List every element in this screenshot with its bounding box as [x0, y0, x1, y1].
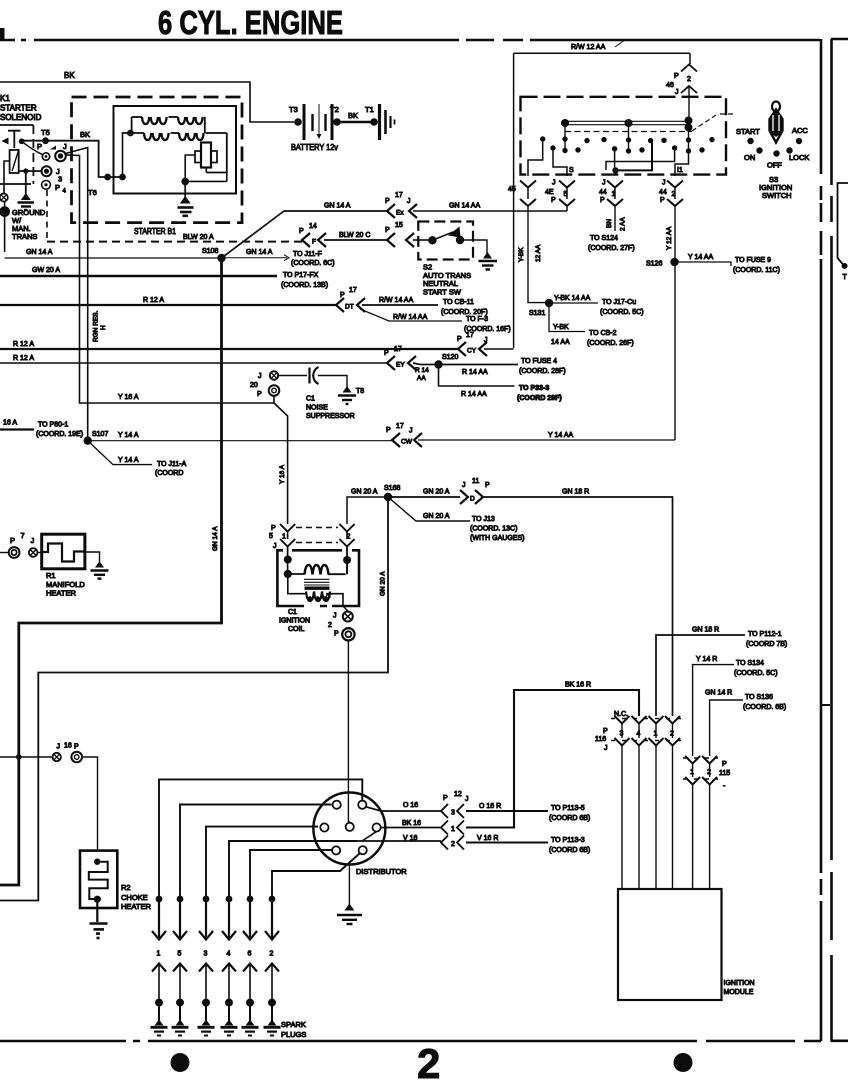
connector pin 3	[441, 804, 448, 818]
svg-text:6: 6	[248, 951, 252, 958]
svg-text:Y 16 A: Y 16 A	[279, 464, 286, 484]
connector pin 1	[441, 821, 448, 835]
svg-text:(COORD: (COORD	[155, 470, 183, 477]
svg-text:11: 11	[472, 478, 479, 485]
svg-text:TO P113-5: TO P113-5	[551, 805, 585, 812]
svg-text:TO J11-F: TO J11-F	[293, 251, 322, 258]
connector P115 pin 1	[685, 756, 700, 764]
svg-text:TO FUSE 9: TO FUSE 9	[735, 257, 771, 264]
svg-text:(COORD. 27F): (COORD. 27F)	[588, 245, 635, 252]
svg-text:20: 20	[250, 382, 258, 389]
ground earth (solenoid)	[25, 171, 27, 195]
svg-text:AA: AA	[417, 375, 426, 382]
ground earth (R2)	[90, 924, 108, 939]
svg-text:R1: R1	[46, 571, 56, 580]
wire 16 A to P80-1	[0, 428, 34, 430]
svg-text:DISTRIBUTOR: DISTRIBUTOR	[356, 867, 407, 876]
wire R 14 AA to fuse 4	[413, 363, 518, 365]
wire GN 14 A to ignition switch	[284, 210, 387, 212]
svg-text:J: J	[63, 142, 67, 151]
node S107	[84, 437, 92, 445]
svg-text:J: J	[57, 744, 61, 751]
switch S3 ignition switch dashed box	[521, 97, 727, 175]
starter B1 inner case	[114, 106, 237, 194]
svg-text:2: 2	[687, 76, 691, 83]
svg-text:Y-BK: Y-BK	[553, 324, 569, 331]
distributor output V 16	[357, 840, 441, 842]
svg-text:O 16: O 16	[403, 802, 418, 809]
svg-text:S107: S107	[92, 431, 108, 438]
spark plug columns	[156, 896, 276, 903]
svg-text:J: J	[409, 428, 413, 435]
svg-text:BK 16: BK 16	[402, 820, 421, 827]
node S108	[217, 254, 225, 262]
node starter coil feed	[119, 174, 126, 181]
svg-text:R 14 AA: R 14 AA	[461, 391, 487, 398]
connector P116 pin 2	[665, 716, 680, 724]
svg-text:(COORD. 11C): (COORD. 11C)	[733, 267, 780, 274]
svg-text:P: P	[457, 336, 462, 343]
svg-text:2: 2	[672, 191, 676, 198]
wire R/W 14 AA to CB-11	[362, 304, 438, 306]
svg-text:5: 5	[178, 951, 182, 958]
svg-text:R/W 12 AA: R/W 12 AA	[571, 44, 606, 51]
svg-text:P: P	[603, 728, 608, 735]
svg-text:NOISE: NOISE	[306, 405, 328, 412]
svg-text:T5: T5	[41, 128, 50, 137]
svg-text:BK: BK	[80, 130, 90, 139]
svg-text:I1: I1	[677, 167, 683, 174]
svg-text:BK 16 R: BK 16 R	[565, 682, 591, 689]
wire BK solenoid to starter	[22, 141, 123, 177]
svg-text:(COORD. 5C): (COORD. 5C)	[600, 309, 644, 316]
svg-text:CW: CW	[401, 439, 413, 446]
node S131 wiring	[528, 206, 545, 303]
connector P115 pin 2	[702, 756, 717, 764]
solenoid switch blade	[22, 141, 43, 155]
spark plug wire 4	[229, 841, 357, 899]
wire R 12 A (to EY)	[0, 362, 387, 364]
svg-text:J: J	[273, 543, 277, 550]
page right border (adjacent page)	[830, 39, 833, 1041]
svg-text:P: P	[600, 197, 605, 204]
node S2 contact	[428, 236, 436, 244]
spark plug 1	[158, 1003, 160, 1022]
wire Y 14 AA return bus	[418, 439, 675, 441]
starter field coil row 1	[132, 116, 142, 118]
svg-text:(COORD. 19E): (COORD. 19E)	[36, 431, 83, 438]
resistor R2 choke heater	[80, 851, 117, 908]
wire solenoid coil left to ground node	[4, 161, 10, 193]
svg-text:2: 2	[417, 1040, 440, 1087]
wire Y 14 A riser	[66, 148, 88, 441]
svg-text:H: H	[100, 325, 107, 330]
svg-text:GN 18 R: GN 18 R	[692, 627, 719, 634]
wire GN 20 A to J13	[388, 497, 470, 521]
svg-text:EY: EY	[396, 362, 405, 369]
svg-text:116: 116	[595, 736, 606, 743]
wire GN 20 A coil feed	[347, 497, 388, 524]
svg-text:IGNITION: IGNITION	[724, 980, 755, 987]
ground earth (R1)	[95, 561, 104, 568]
wire Y 14 A to J11-A	[88, 441, 152, 465]
distributor output BK 16	[381, 827, 441, 829]
connector spark plug lead 2	[271, 899, 273, 938]
spark plug 2	[271, 1003, 273, 1022]
svg-text:115: 115	[719, 770, 730, 777]
svg-text:V 16: V 16	[403, 835, 418, 842]
svg-text:17: 17	[349, 287, 357, 294]
switch S2 auto trans neutral start sw (dashed box)	[418, 222, 473, 260]
svg-text:P: P	[385, 227, 390, 234]
svg-text:P: P	[384, 350, 389, 357]
svg-text:17: 17	[466, 332, 474, 339]
svg-text:S108: S108	[202, 248, 218, 255]
connector P116 pin 1	[649, 716, 664, 724]
bottom staple dot left	[171, 1053, 190, 1072]
svg-text:TRANS: TRANS	[12, 232, 37, 241]
svg-text:RGN RES.: RGN RES.	[93, 310, 100, 342]
svg-text:4: 4	[63, 189, 67, 195]
svg-text:TO CB-2: TO CB-2	[589, 330, 617, 337]
distributor output O 16	[366, 807, 441, 811]
connector spark plug lead 1	[158, 899, 160, 938]
spark plug wire 2	[272, 854, 360, 900]
node contact	[19, 138, 25, 144]
wire GN 20 A to D	[388, 496, 460, 498]
coil C1 ignition coil case	[277, 550, 359, 606]
svg-text:1: 1	[157, 951, 161, 958]
svg-text:P: P	[674, 73, 679, 80]
svg-text:DT: DT	[345, 304, 354, 311]
wire Y-BK 14 AA to CB-2	[549, 303, 585, 332]
wire S2 to ground	[460, 240, 487, 254]
svg-text:TO S136: TO S136	[745, 694, 773, 701]
svg-text:(COORD. 5C): (COORD. 5C)	[734, 670, 778, 677]
spark plug wire 6	[250, 850, 332, 899]
connector ring ground stud	[0, 194, 8, 202]
wire GN 14 A main riser	[0, 258, 222, 885]
svg-text:(COORD 29F): (COORD 29F)	[517, 395, 562, 402]
svg-text:P: P	[386, 427, 391, 434]
ignition module	[618, 889, 722, 1000]
svg-text:R/W 14 AA: R/W 14 AA	[379, 297, 414, 304]
svg-text:12: 12	[454, 791, 462, 798]
svg-text:GN 14 A: GN 14 A	[26, 249, 53, 256]
wire GN 14 AA	[413, 210, 567, 212]
svg-text:(COORD. 6C): (COORD. 6C)	[291, 260, 335, 267]
svg-text:1: 1	[451, 826, 455, 833]
wire R/W 14 AA to F-3	[360, 309, 462, 321]
svg-text:4E: 4E	[545, 189, 554, 196]
svg-text:P: P	[271, 525, 276, 532]
wire GN 20 A return	[0, 497, 388, 901]
svg-text:HEATER: HEATER	[121, 902, 151, 911]
node S120	[434, 360, 442, 368]
svg-text:J: J	[465, 796, 469, 803]
svg-text:17: 17	[396, 423, 404, 430]
S3 rotor dashed track	[565, 131, 692, 133]
svg-text:SOLENOID: SOLENOID	[0, 113, 42, 122]
connector J pin 3	[42, 166, 52, 176]
node S168	[384, 493, 392, 501]
svg-text:1: 1	[282, 534, 286, 541]
svg-text:IGNITION: IGNITION	[279, 618, 310, 625]
svg-text:K1: K1	[0, 94, 10, 103]
svg-text:16: 16	[64, 743, 72, 750]
wire to R2 choke heater	[82, 757, 97, 850]
spark plug wire 3	[206, 827, 318, 899]
wire O 16 R to P113-5	[466, 810, 548, 812]
svg-text:GN 20 A: GN 20 A	[423, 513, 450, 520]
svg-text:GN 14 R: GN 14 R	[705, 690, 732, 697]
svg-text:MODULE: MODULE	[724, 989, 754, 996]
S3 key positions	[747, 138, 802, 157]
svg-text:TO S134: TO S134	[736, 660, 764, 667]
svg-text:TO J13: TO J13	[472, 516, 495, 523]
connector pin 2	[441, 836, 448, 850]
wire GN 18 R	[481, 497, 673, 716]
svg-text:O 16 R: O 16 R	[479, 803, 501, 810]
svg-text:44: 44	[599, 189, 607, 196]
svg-text:Y 16 A: Y 16 A	[118, 394, 139, 401]
svg-text:J: J	[675, 89, 679, 96]
node J16P junction	[16, 754, 22, 760]
svg-text:7: 7	[21, 531, 25, 540]
svg-text:(WITH GAUGES): (WITH GAUGES)	[470, 535, 524, 542]
svg-text:TO S124: TO S124	[590, 235, 618, 242]
page bottom border	[0, 1040, 821, 1043]
solenoid contact bar	[8, 131, 21, 148]
svg-text:P: P	[257, 391, 262, 398]
svg-text:(COORD 6B): (COORD 6B)	[549, 815, 590, 822]
svg-text:J: J	[333, 613, 337, 620]
svg-text:OFF: OFF	[767, 161, 782, 170]
svg-text:BK: BK	[64, 71, 75, 80]
svg-text:S120: S120	[442, 354, 458, 361]
svg-text:START: START	[736, 127, 760, 136]
svg-text:GN 14 A: GN 14 A	[246, 249, 273, 256]
svg-text:T: T	[843, 274, 848, 281]
svg-text:2: 2	[328, 622, 332, 629]
wire BK battery feed (top)	[0, 82, 294, 122]
svg-text:TO P112-1: TO P112-1	[748, 631, 782, 638]
spark plug 3	[205, 1003, 207, 1022]
node S2 output	[456, 236, 464, 244]
coil windings	[288, 532, 347, 575]
svg-text:J: J	[31, 536, 35, 545]
svg-text:Y 14 AA: Y 14 AA	[548, 432, 574, 439]
svg-text:R 12 A: R 12 A	[143, 297, 164, 304]
svg-text:P: P	[37, 142, 42, 151]
bottom staple dot right	[674, 1053, 693, 1072]
svg-text:Y 14 AA: Y 14 AA	[688, 254, 714, 261]
wire GW 20 A	[0, 275, 277, 278]
svg-text:14: 14	[309, 223, 317, 230]
svg-text:S: S	[569, 167, 574, 174]
svg-text:P: P	[10, 536, 15, 545]
svg-text:ACC: ACC	[792, 126, 808, 135]
svg-text:Y 12 AA: Y 12 AA	[666, 226, 673, 250]
svg-text:BK: BK	[348, 111, 358, 120]
svg-text:GN 20 A: GN 20 A	[380, 571, 387, 596]
svg-text:START SW: START SW	[423, 288, 462, 297]
svg-text:TO FUSE 4: TO FUSE 4	[521, 358, 557, 365]
S3 contact bus	[565, 121, 690, 124]
svg-text:(COORD. 26F): (COORD. 26F)	[587, 340, 634, 347]
S3 contact stacks	[565, 123, 689, 152]
S2 switch blade	[432, 232, 453, 240]
svg-text:P: P	[55, 183, 60, 192]
svg-text:S131: S131	[529, 310, 545, 317]
svg-text:P: P	[443, 795, 448, 802]
svg-text:Y 14 R: Y 14 R	[696, 656, 717, 663]
svg-text:T3: T3	[289, 105, 298, 114]
wire Y 14 R to S134	[693, 665, 734, 756]
svg-text:45: 45	[508, 186, 516, 193]
svg-text:P: P	[660, 197, 665, 204]
ground chassis at T1	[380, 104, 395, 140]
svg-text:Y 14 A: Y 14 A	[118, 432, 139, 439]
node T2	[333, 118, 341, 126]
svg-text:TO P80-1: TO P80-1	[38, 422, 68, 429]
svg-text:HEATER: HEATER	[46, 589, 76, 598]
svg-text:Ex: Ex	[396, 210, 404, 217]
wire BLW 20 A (dashed)	[47, 241, 302, 243]
connector stems P116/P115	[622, 724, 673, 739]
page border corner mark top-left	[0, 28, 5, 41]
svg-text:TO CB-11: TO CB-11	[443, 299, 474, 306]
connector spark plug lead 5	[179, 899, 181, 938]
wire Y 12 AA	[674, 206, 676, 440]
svg-text:(COORD. 13B): (COORD. 13B)	[281, 282, 328, 289]
svg-text:J: J	[462, 482, 466, 489]
svg-text:GN 14 A: GN 14 A	[324, 203, 351, 210]
svg-text:GN 18 R: GN 18 R	[562, 489, 589, 496]
svg-text:2 AA: 2 AA	[620, 217, 627, 231]
page right border (inner)	[820, 39, 823, 1041]
svg-text:P: P	[334, 631, 339, 638]
ground earth (distributor)	[348, 865, 350, 906]
svg-text:R 14 AA: R 14 AA	[462, 369, 488, 376]
distributor	[313, 793, 385, 865]
svg-text:17: 17	[394, 346, 402, 353]
node T3	[294, 118, 302, 126]
svg-text:J: J	[407, 198, 411, 205]
wire GN 14 R to S136	[710, 700, 743, 756]
spark plug 4	[228, 1003, 230, 1022]
wire GN 18 R to P112-1	[656, 635, 745, 716]
wire BK 16 R	[466, 690, 639, 828]
wire R 12 A (to DT)	[0, 304, 336, 306]
starter field coil row 2	[131, 117, 133, 133]
svg-text:TO J17-Cu: TO J17-Cu	[602, 299, 636, 306]
connector spark plug lead 4	[228, 899, 230, 938]
svg-text:R2: R2	[121, 883, 131, 892]
svg-text:TO P113-3: TO P113-3	[551, 837, 585, 844]
svg-text:GW 20 A: GW 20 A	[32, 267, 60, 274]
svg-text:J: J	[604, 745, 608, 752]
svg-text:S126: S126	[646, 261, 662, 268]
connector spark plug lead 6	[249, 899, 251, 938]
svg-text:Y-BK 14 AA: Y-BK 14 AA	[554, 295, 591, 302]
wire armature to ground	[185, 155, 195, 181]
svg-text:2: 2	[451, 841, 455, 848]
adjacent page box fragment right edge	[838, 183, 848, 266]
svg-text:46: 46	[666, 82, 674, 89]
wire diagonal to S108	[222, 211, 285, 258]
svg-text:P: P	[485, 482, 490, 489]
wire R/W 12 AA	[514, 53, 690, 64]
svg-text:P: P	[385, 198, 390, 205]
connector pin 45	[528, 188, 675, 200]
svg-text:(COORD. 13C): (COORD. 13C)	[470, 526, 517, 533]
svg-text:GN 20 A: GN 20 A	[423, 489, 450, 496]
svg-text:(COORD. 6B): (COORD. 6B)	[743, 704, 786, 711]
svg-text:3: 3	[451, 810, 455, 817]
ground earth (S2)	[483, 252, 492, 259]
wire V 16 R to P113-3	[466, 841, 548, 843]
solenoid coil	[10, 150, 19, 173]
svg-text:4: 4	[227, 951, 231, 958]
dashed K1 boundary	[46, 190, 48, 242]
svg-text:(COORD. 20F): (COORD. 20F)	[441, 309, 488, 316]
svg-text:Y-BK: Y-BK	[518, 247, 525, 262]
svg-text:P: P	[551, 197, 556, 204]
node T1	[370, 118, 378, 126]
svg-text:BN: BN	[606, 219, 613, 228]
starter B1 dashed box	[72, 97, 243, 223]
svg-text:LOCK: LOCK	[789, 153, 809, 162]
connector P116 pin 4	[632, 716, 647, 724]
connector J 16 P	[0, 756, 52, 758]
node ground w/ man. trans	[0, 206, 10, 217]
ignition key symbol	[772, 102, 780, 112]
svg-text:PLUGS: PLUGS	[281, 1030, 306, 1039]
connector P2/46 inline	[681, 65, 697, 72]
svg-text:15: 15	[395, 222, 403, 229]
svg-text:F: F	[312, 239, 316, 246]
svg-text:(COORD. 28F): (COORD. 28F)	[519, 368, 566, 375]
spark plug 5	[179, 1003, 181, 1022]
svg-text:STARTER: STARTER	[0, 104, 37, 113]
svg-text:R 14: R 14	[415, 367, 429, 374]
wire BN 2 AA to S124	[614, 206, 616, 231]
svg-text:BLW 20 A: BLW 20 A	[183, 234, 214, 241]
svg-text:J: J	[258, 373, 262, 380]
svg-text:V 16 R: V 16 R	[477, 835, 498, 842]
wire Y 16 A to coil	[274, 396, 288, 524]
spark plug wire 5	[180, 805, 332, 900]
svg-text:STARTER B1: STARTER B1	[134, 226, 176, 236]
svg-text:CY: CY	[467, 348, 477, 355]
svg-text:6 CYL. ENGINE: 6 CYL. ENGINE	[158, 4, 343, 41]
spark plug wire 1	[159, 779, 362, 899]
wire BLW 20 C	[324, 239, 387, 241]
wire R 12 A (to CY)	[0, 348, 458, 350]
wire Y-BK 14 AA to J17-Cu	[549, 302, 598, 304]
svg-text:T2: T2	[330, 105, 339, 114]
svg-text:TO P17-FX: TO P17-FX	[283, 272, 319, 279]
wire solenoid coil to J3	[19, 170, 42, 172]
wire Y 16 A	[65, 155, 274, 403]
svg-text:SUPPRESSOR: SUPPRESSOR	[306, 413, 355, 420]
svg-text:ON: ON	[744, 153, 755, 162]
svg-text:GN 14 A: GN 14 A	[212, 526, 219, 551]
connector spark plug lead 3	[205, 899, 207, 938]
svg-text:J: J	[602, 180, 606, 187]
svg-text:BLW 20 C: BLW 20 C	[339, 232, 370, 239]
